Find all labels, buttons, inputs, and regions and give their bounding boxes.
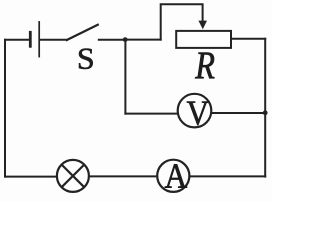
rheostat R: resistor body box — [176, 31, 231, 48]
ammeter U2: circle — [157, 160, 189, 192]
switch S: lever (open) — [67, 25, 98, 40]
wire: rheostat right lead — [231, 38, 265, 40]
wire: bottom rail right segment — [190, 175, 266, 177]
voltmeter U1: circle — [178, 94, 212, 128]
node: junction dot at switch output — [123, 37, 128, 42]
voltmeter U1: letter V — [187, 102, 209, 125]
wire: V-branch vertical drop from junction — [124, 40, 126, 114]
battery B1: long plate (positive) — [38, 22, 40, 57]
wire: battery to switch pivot — [40, 39, 67, 41]
wire: bottom rail middle segment — [89, 175, 157, 177]
rheostat R: wiper arrowhead — [198, 21, 207, 30]
wire: right vertical rail — [264, 39, 266, 177]
ammeter U2: letter A — [165, 164, 187, 187]
lamp L1: circle — [57, 160, 89, 192]
label R for rheostat — [195, 53, 214, 79]
wire: bottom rail left segment — [5, 176, 57, 178]
wire: V-branch left lead to voltmeter — [125, 113, 178, 115]
wire: junction to rheostat top loop riser — [125, 39, 161, 41]
wire: switch right contact to junction — [99, 39, 125, 41]
wire: voltmeter to right rail — [211, 112, 265, 114]
wire: rheostat wiper loop (up, across, down to arrow) — [161, 4, 203, 39]
lamp L1: X cross — [62, 165, 85, 188]
node: junction dot on right rail at voltmeter branch — [263, 110, 268, 115]
wire: left vertical rail — [4, 40, 6, 177]
battery B1: short plate (negative) — [29, 32, 32, 46]
wire: top-left horizontal from left rail to battery — [5, 39, 30, 41]
label S for switch — [79, 49, 93, 69]
